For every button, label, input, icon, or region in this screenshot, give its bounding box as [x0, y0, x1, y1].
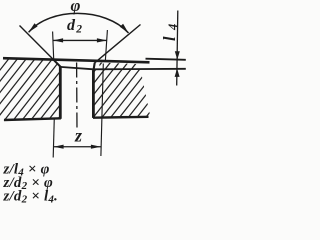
phi angle dimension arc — [29, 13, 129, 33]
left countersink chamfer side — [54, 60, 61, 67]
svg-text:z: z — [74, 126, 82, 146]
d2 right arrowhead — [97, 38, 107, 42]
arc left arrowhead — [29, 23, 38, 32]
countersink bottom line across hole, extending right as l4 reference — [60, 67, 186, 69]
hole centerline (dash-dot) — [76, 63, 78, 131]
svg-text:φ: φ — [71, 0, 81, 15]
svg-text:l: l — [160, 36, 179, 41]
d2 left extension line — [53, 32, 54, 60]
left countersink side extension line (above surface) — [20, 26, 55, 61]
l4 upper arrowhead (down) — [175, 51, 180, 60]
z left arrowhead — [54, 145, 64, 149]
right countersink side extension line (above surface) — [94, 25, 140, 64]
l4 lower arrowhead (up) — [175, 68, 180, 77]
top surface line (right stroke) — [146, 59, 186, 60]
l4 dimension line (continuous) — [177, 11, 178, 86]
d2 dimension line — [53, 39, 107, 41]
d2 right extension line — [105, 30, 107, 62]
hatching thin strip right of countersink — [0, 0, 193, 240]
z right arrowhead — [91, 145, 101, 149]
hatching right block — [0, 0, 245, 240]
left block bottom edge — [4, 118, 61, 120]
d2 left arrowhead — [53, 38, 63, 42]
right countersink chamfer side — [93, 63, 94, 71]
svg-text:4: 4 — [166, 24, 180, 31]
top surface line (left stroke) — [3, 58, 150, 62]
right block bottom edge — [93, 116, 149, 119]
right hole wall — [92, 70, 95, 118]
left hole wall — [59, 66, 62, 119]
z left extension line — [53, 118, 54, 158]
z dimension line — [53, 146, 101, 148]
arc right arrowhead — [120, 24, 129, 33]
z right extension line — [101, 64, 103, 157]
hatching left block — [0, 0, 159, 240]
